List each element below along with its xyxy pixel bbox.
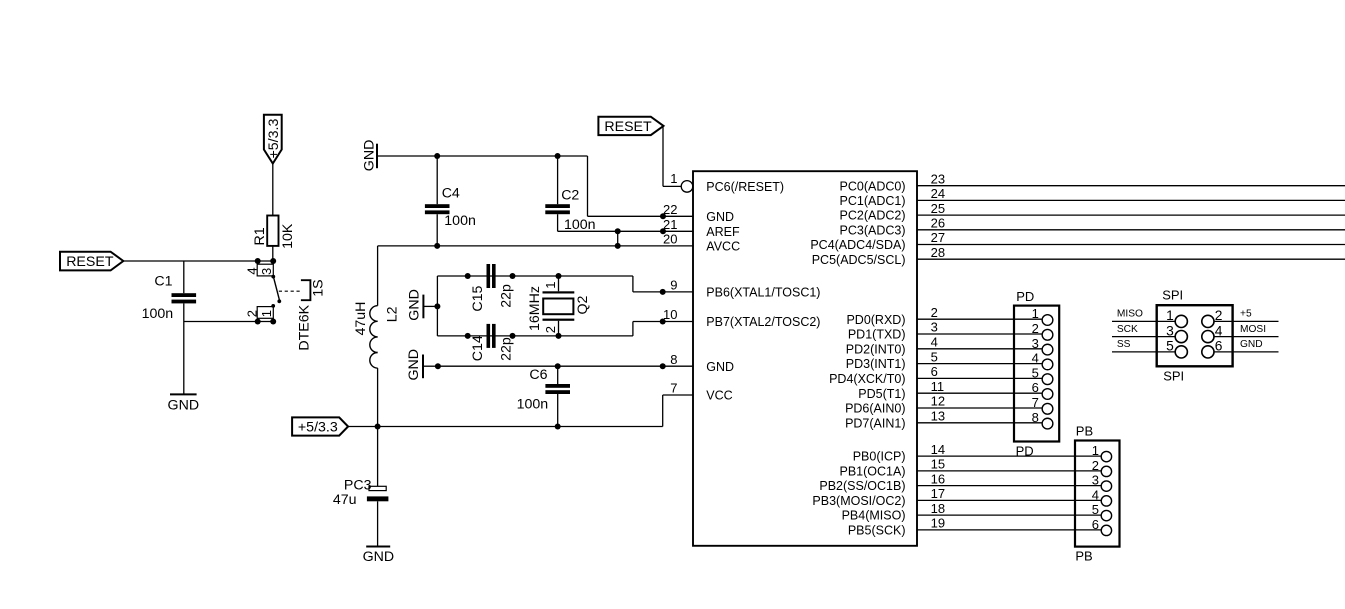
svg-text:RESET: RESET — [604, 119, 652, 135]
svg-text:C14: C14 — [470, 335, 486, 361]
svg-text:PD1(TXD): PD1(TXD) — [848, 328, 906, 342]
IC pin 21 AREF — [663, 217, 740, 239]
svg-text:PB6(XTAL1/TOSC1): PB6(XTAL1/TOSC1) — [706, 286, 820, 300]
connector PB pin 2 — [1092, 458, 1112, 477]
svg-text:SPI: SPI — [1162, 288, 1183, 303]
junction C4 top — [434, 153, 440, 159]
junction C2 top — [555, 153, 561, 159]
svg-text:17: 17 — [931, 486, 945, 501]
wire loop right to pin10 — [632, 322, 634, 336]
svg-text:4: 4 — [1092, 487, 1099, 502]
svg-text:27: 27 — [931, 230, 945, 245]
IC pin 1 PC6(/RESET) — [670, 171, 784, 194]
ground GND stub (crystal, rotated) — [407, 289, 438, 321]
wire R1 top lead — [272, 164, 274, 216]
svg-text:SCK: SCK — [1117, 324, 1138, 335]
capacitor C1 — [142, 273, 196, 322]
capacitor C4 — [425, 156, 476, 246]
svg-text:10: 10 — [663, 307, 677, 322]
IC pin 4 PD2(INT0) + wire — [846, 335, 1042, 357]
svg-text:11: 11 — [931, 379, 945, 394]
connector SPI pins 3,4 row — [1112, 323, 1279, 342]
svg-text:47u: 47u — [333, 492, 357, 508]
svg-text:PD0(RXD): PD0(RXD) — [846, 313, 905, 327]
ground GND stub (pin8, rotated) — [406, 349, 438, 381]
connector PB pin 3 — [1092, 473, 1112, 492]
svg-text:RESET: RESET — [66, 254, 114, 270]
IC pin 14 PB0(ICP) + wire — [853, 442, 1101, 464]
junction dots near IC pins 22,21 — [660, 213, 666, 219]
IC U1 body — [693, 171, 917, 546]
svg-text:GND: GND — [706, 210, 734, 224]
svg-text:L2: L2 — [384, 306, 400, 322]
svg-text:C4: C4 — [442, 185, 460, 201]
svg-text:PB1(OC1A): PB1(OC1A) — [840, 465, 906, 479]
IC pin 5 PD3(INT1) + wire — [846, 349, 1042, 371]
svg-text:100n: 100n — [142, 306, 174, 322]
connector PD pin 1 — [1032, 306, 1053, 325]
svg-text:PD6(AIN0): PD6(AIN0) — [845, 402, 905, 416]
svg-text:GND: GND — [1240, 339, 1263, 350]
svg-text:C15: C15 — [470, 285, 486, 311]
svg-text:3: 3 — [1032, 336, 1039, 351]
svg-text:18: 18 — [931, 501, 945, 516]
svg-text:2: 2 — [1215, 308, 1223, 323]
svg-text:PB7(XTAL2/TOSC2): PB7(XTAL2/TOSC2) — [706, 315, 820, 329]
svg-text:MOSI: MOSI — [1240, 324, 1266, 335]
wire C1 top lead — [183, 261, 185, 293]
svg-text:GND: GND — [407, 289, 423, 321]
svg-text:16MHz: 16MHz — [527, 286, 543, 331]
svg-text:4: 4 — [1215, 323, 1223, 338]
IC pin 28 PC5(ADC5/SCL) + wire — [812, 245, 1345, 267]
switch S1 upper contact box pins 4,3 — [245, 261, 274, 276]
connector SPI — [1157, 288, 1233, 384]
svg-text:1: 1 — [1166, 308, 1174, 323]
ground GND (top rail, rotated) — [361, 140, 377, 172]
wire crystal loop top — [437, 275, 633, 277]
svg-text:5: 5 — [1032, 365, 1039, 380]
wire loop right to pin9 — [632, 276, 634, 292]
IC pin 3 PD1(TXD) + wire — [848, 320, 1042, 342]
svg-text:C6: C6 — [529, 367, 547, 383]
IC pin 25 PC2(ADC2) + wire — [840, 201, 1345, 223]
svg-text:21: 21 — [663, 217, 677, 232]
wire +5 net horizontal — [348, 426, 663, 428]
junction C4 bottom — [434, 243, 440, 249]
svg-text:1: 1 — [1032, 306, 1039, 321]
wire +5 rail down to PC3 — [377, 427, 379, 487]
power flag +5/3.3 (top) — [264, 115, 282, 164]
svg-text:3: 3 — [1092, 473, 1099, 488]
svg-text:GND: GND — [168, 397, 200, 413]
wire top GND rail — [377, 155, 588, 157]
IC pin 6 PD4(XCK/T0) + wire — [829, 364, 1042, 386]
connector SPI pins 5,6 row — [1112, 339, 1279, 358]
svg-text:+5: +5 — [1240, 309, 1252, 320]
crystal Q2 — [527, 273, 591, 339]
svg-text:47uH: 47uH — [353, 302, 369, 336]
svg-text:+5/3.3: +5/3.3 — [266, 119, 282, 159]
svg-text:26: 26 — [931, 216, 945, 231]
wire GND rail corner down to pin22 — [587, 156, 589, 216]
svg-text:PD7(AIN1): PD7(AIN1) — [845, 416, 905, 430]
svg-text:1S: 1S — [310, 279, 326, 296]
svg-text:10K: 10K — [280, 223, 296, 249]
IC pin 22 GND — [663, 202, 734, 224]
svg-text:4: 4 — [1032, 351, 1039, 366]
svg-text:23: 23 — [931, 171, 945, 186]
svg-text:2: 2 — [245, 310, 260, 317]
svg-text:8: 8 — [1032, 410, 1039, 425]
connector PD pin 4 — [1032, 351, 1053, 370]
svg-text:6: 6 — [1032, 380, 1039, 395]
connector PD pin 8 — [1032, 410, 1053, 429]
wire AREF net (pin21) — [558, 230, 693, 232]
svg-text:3: 3 — [931, 320, 938, 335]
svg-text:24: 24 — [931, 186, 945, 201]
svg-text:PC5(ADC5/SCL): PC5(ADC5/SCL) — [812, 253, 906, 267]
svg-text:1: 1 — [543, 281, 558, 288]
connector PB pin 6 — [1092, 517, 1112, 536]
IC pin 19 PB5(SCK) + wire — [848, 516, 1101, 538]
switch S1 actuator bracket — [301, 280, 311, 300]
IC pin 12 PD6(AIN0) + wire — [845, 394, 1042, 416]
wire RESET to pin 1 — [662, 126, 664, 186]
connector PD pin 2 — [1032, 321, 1053, 340]
IC pin 9 PB6(XTAL1/TOSC1) — [670, 278, 820, 300]
svg-text:5: 5 — [1092, 502, 1099, 517]
svg-text:PD: PD — [1016, 443, 1034, 458]
svg-text:5: 5 — [1166, 339, 1174, 354]
switch S1 lower contact box pins 2,1 — [245, 307, 274, 322]
svg-text:AREF: AREF — [706, 225, 740, 239]
svg-text:1: 1 — [1092, 443, 1099, 458]
svg-text:PB: PB — [1075, 548, 1092, 563]
svg-text:PB2(SS/OC1B): PB2(SS/OC1B) — [819, 479, 905, 493]
wire AVCC rail down to L2 — [377, 246, 379, 306]
wire AVCC net (pin20) — [378, 245, 693, 247]
power flag +5/3.3 (bottom) — [292, 417, 348, 435]
IC pin 8 GND — [670, 352, 734, 374]
svg-text:PD: PD — [1016, 289, 1034, 304]
pin 1 inversion bubble — [681, 181, 693, 193]
svg-text:DTE6K: DTE6K — [297, 304, 313, 350]
svg-text:PD5(T1): PD5(T1) — [858, 387, 905, 401]
svg-text:GND: GND — [706, 360, 734, 374]
svg-text:28: 28 — [931, 245, 945, 260]
inductor L2 — [353, 302, 400, 369]
IC pin 10 PB7(XTAL2/TOSC2) — [663, 307, 820, 329]
ground GND (under C1) — [168, 394, 200, 413]
svg-text:4: 4 — [931, 335, 938, 350]
wire PC3 to GND — [377, 501, 379, 546]
connector PD — [1014, 289, 1059, 458]
svg-text:2: 2 — [1032, 321, 1039, 336]
svg-text:VCC: VCC — [706, 389, 732, 403]
svg-text:PC3(ADC3): PC3(ADC3) — [840, 223, 906, 237]
resistor R1 — [252, 216, 296, 249]
svg-text:5: 5 — [931, 349, 938, 364]
connector PD pin 7 — [1032, 395, 1053, 414]
wire GND net to pin 8 — [438, 365, 693, 367]
IC pin 17 PB3(MOSI/OC2) + wire — [812, 486, 1101, 508]
svg-text:R1: R1 — [252, 227, 268, 245]
IC pin 24 PC1(ADC1) + wire — [840, 186, 1345, 208]
svg-text:6: 6 — [1215, 339, 1223, 354]
svg-text:2: 2 — [931, 305, 938, 320]
svg-text:GND: GND — [406, 349, 422, 381]
svg-text:PB0(ICP): PB0(ICP) — [853, 450, 906, 464]
connector PB pin 5 — [1092, 502, 1112, 521]
svg-text:+5/3.3: +5/3.3 — [298, 419, 338, 435]
svg-text:7: 7 — [670, 381, 677, 396]
wire crystal loop left — [436, 276, 438, 336]
svg-text:20: 20 — [663, 232, 677, 247]
IC pin 13 PD7(AIN1) + wire — [845, 409, 1042, 431]
svg-text:14: 14 — [931, 442, 945, 457]
svg-text:22p: 22p — [499, 337, 515, 361]
IC pin 2 PD0(RXD) + wire — [846, 305, 1041, 327]
svg-text:AVCC: AVCC — [706, 240, 740, 254]
net flag RESET (top) — [598, 117, 663, 135]
net flag RESET (left) — [60, 252, 123, 271]
svg-text:16: 16 — [931, 471, 945, 486]
svg-text:C2: C2 — [561, 188, 579, 204]
svg-text:25: 25 — [931, 201, 945, 216]
IC pin 23 PC0(ADC0) + wire — [840, 171, 1345, 193]
svg-text:13: 13 — [931, 409, 945, 424]
svg-text:100n: 100n — [564, 217, 596, 233]
IC pin 27 PC4(ADC4/SDA) + wire — [810, 230, 1345, 252]
svg-text:GND: GND — [363, 549, 395, 565]
IC pin 18 PB4(MISO) + wire — [842, 501, 1102, 523]
connector PD pin 6 — [1032, 380, 1053, 399]
svg-text:8: 8 — [670, 352, 677, 367]
svg-text:SS: SS — [1117, 339, 1131, 350]
capacitor C2 — [545, 156, 595, 233]
svg-text:PB5(SCK): PB5(SCK) — [848, 524, 906, 538]
svg-text:22p: 22p — [499, 284, 515, 308]
junction dots on RESET net at switch — [255, 258, 261, 264]
capacitor PC3 (polarized) — [333, 478, 389, 508]
wire C1 bottom lead to GND — [183, 303, 185, 394]
capacitor C6 — [517, 366, 570, 426]
switch S1 actuator dashed link — [279, 290, 301, 292]
IC pin 20 AVCC — [663, 232, 740, 254]
IC pin 11 PD5(T1) + wire — [858, 379, 1042, 401]
IC pin 7 VCC — [670, 381, 732, 403]
svg-text:PD3(INT1): PD3(INT1) — [846, 357, 906, 371]
svg-text:9: 9 — [670, 278, 677, 293]
svg-text:2: 2 — [543, 326, 558, 333]
svg-text:PC0(ADC0): PC0(ADC0) — [840, 179, 906, 193]
svg-text:1: 1 — [670, 171, 677, 186]
capacitor C15 — [465, 264, 516, 312]
svg-text:PD2(INT0): PD2(INT0) — [846, 342, 906, 356]
svg-text:PC4(ADC4/SDA): PC4(ADC4/SDA) — [810, 238, 905, 252]
svg-text:GND: GND — [361, 140, 377, 172]
svg-text:Q2: Q2 — [575, 295, 591, 314]
connector PB — [1075, 424, 1120, 564]
svg-text:2: 2 — [1092, 458, 1099, 473]
wire crystal loop bottom — [437, 335, 633, 337]
wire L2 bottom to +5 rail — [377, 368, 379, 426]
svg-text:SPI: SPI — [1163, 368, 1184, 383]
capacitor C14 — [465, 324, 516, 361]
svg-text:100n: 100n — [517, 396, 549, 412]
wire R1 bottom lead — [272, 246, 274, 261]
svg-text:7: 7 — [1032, 395, 1039, 410]
svg-text:3: 3 — [1166, 323, 1174, 338]
IC pin 16 PB2(SS/OC1B) + wire — [819, 471, 1101, 493]
svg-text:PB: PB — [1076, 424, 1093, 439]
connector PB pin 1 — [1092, 443, 1112, 462]
svg-text:PC2(ADC2): PC2(ADC2) — [840, 209, 906, 223]
svg-text:12: 12 — [931, 394, 945, 409]
connector PB pin 4 — [1092, 487, 1112, 506]
svg-text:6: 6 — [1092, 517, 1099, 532]
svg-text:4: 4 — [245, 267, 260, 274]
svg-text:15: 15 — [931, 457, 945, 472]
svg-text:PB3(MOSI/OC2): PB3(MOSI/OC2) — [812, 494, 905, 508]
svg-text:PC6(/RESET): PC6(/RESET) — [706, 180, 784, 194]
svg-text:PC1(ADC1): PC1(ADC1) — [840, 194, 906, 208]
connector PD pin 3 — [1032, 336, 1053, 355]
svg-text:MISO: MISO — [1117, 309, 1143, 320]
svg-text:19: 19 — [931, 516, 945, 531]
svg-text:100n: 100n — [444, 213, 476, 229]
svg-text:6: 6 — [931, 364, 938, 379]
ground GND (under PC3) — [363, 547, 395, 565]
wire AREF-AVCC link — [617, 231, 619, 246]
svg-text:PB4(MISO): PB4(MISO) — [842, 509, 906, 523]
svg-text:1: 1 — [259, 310, 274, 317]
svg-text:22: 22 — [663, 202, 677, 217]
wire RESET net horizontal — [123, 260, 273, 262]
connector SPI pins 1,2 row — [1112, 308, 1279, 327]
IC pin 15 PB1(OC1A) + wire — [840, 457, 1102, 479]
switch S1 lever — [273, 276, 279, 300]
svg-text:3: 3 — [259, 268, 274, 275]
connector PD pin 5 — [1032, 365, 1053, 384]
wire VCC pin 7 — [663, 394, 693, 396]
svg-text:C1: C1 — [154, 273, 172, 289]
wire switch bottom net — [184, 321, 273, 323]
svg-text:PD4(XCK/T0): PD4(XCK/T0) — [829, 372, 905, 386]
IC pin 26 PC3(ADC3) + wire — [840, 216, 1345, 238]
